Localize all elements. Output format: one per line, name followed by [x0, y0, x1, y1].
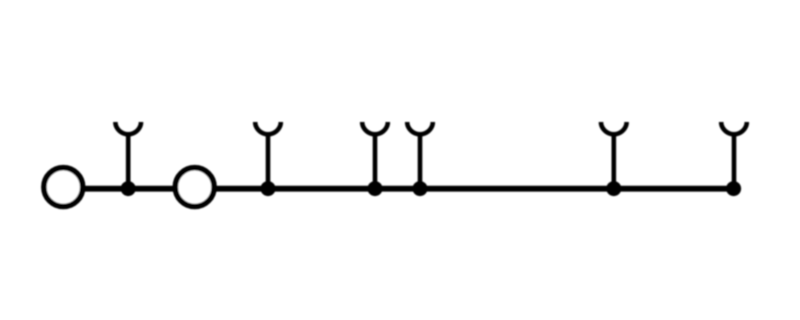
spring-clamp fork symbol 3	[362, 122, 388, 134]
clamp stem 1	[126, 133, 131, 189]
clamp stem 4	[418, 133, 423, 189]
spring-clamp fork symbol 5	[601, 122, 627, 134]
node 5 junction dot	[606, 181, 621, 196]
clamp stem 5	[611, 133, 616, 189]
clamp stem 3	[373, 133, 378, 189]
node 2 junction dot	[261, 181, 276, 196]
node 4 junction dot	[413, 181, 428, 196]
node 1 junction dot	[121, 181, 136, 196]
clamp stem 6	[732, 133, 737, 189]
wire (main horizontal bus)	[63, 186, 734, 192]
node 6 junction dot (wire end)	[726, 181, 741, 196]
terminal circle X2 (second open terminal)	[175, 168, 214, 207]
spring-clamp fork symbol 1	[115, 122, 141, 134]
spring-clamp fork symbol 2	[255, 122, 281, 134]
spring-clamp fork symbol 4	[407, 122, 433, 134]
spring-clamp fork symbol 6	[721, 122, 747, 134]
node 3 junction dot	[368, 181, 383, 196]
clamp stem 2	[266, 133, 271, 189]
terminal circle X1 (left open terminal)	[44, 168, 83, 207]
